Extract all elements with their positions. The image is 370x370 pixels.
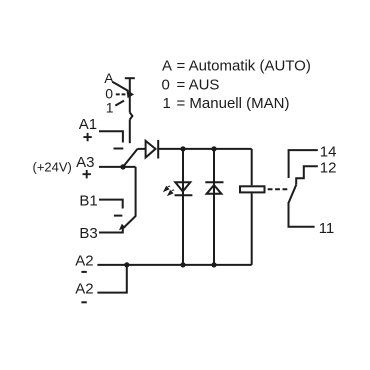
selector tick for position 1 [115,101,124,106]
selector lever to position A [113,82,129,91]
node top bus / diode branch [211,146,216,151]
suppressor diode triangle [207,185,222,194]
plus sign under A3 [83,170,91,178]
wire B3 terminal [99,229,123,233]
svg-text:0: 0 [162,76,170,93]
wire A2 lower terminal [97,265,126,293]
terminal label A2 lower [75,281,93,298]
terminal label B1 [79,193,97,210]
LED light arrow lower [167,189,175,196]
svg-text:= AUS: = AUS [177,76,220,93]
selector position label 1 [106,100,114,116]
wire relay coil branch upper [251,149,253,185]
relay contact wire terminal 12 [296,166,318,185]
wire suppressor diode branch vertical [213,149,215,265]
pin label 12 [320,160,337,177]
plus sign under A1 [83,133,91,141]
wire LED branch vertical [182,149,184,265]
svg-text:A: A [104,70,114,86]
wire lever to diode anode [138,148,146,150]
wire B1 terminal [99,200,123,209]
svg-text:1: 1 [163,95,171,112]
selector shaft lower [129,120,131,144]
selector switch S (positions A/0/1) label A [104,70,114,86]
node bottom bus / diode branch [211,262,216,267]
relay contact wire terminal 14 [289,150,318,178]
svg-text:(+24V): (+24V) [33,159,72,174]
LED triangle [175,182,190,191]
svg-text:11: 11 [319,220,335,237]
svg-text:A3: A3 [76,154,94,171]
legend text block [162,58,311,112]
minus sign under A2 lower [81,301,86,303]
svg-text:A1: A1 [79,116,97,133]
label (+24V) [33,159,72,174]
wire A1 terminal [99,131,123,142]
contact lever B3 [123,216,136,229]
contact lever B3 arrowhead [119,224,126,231]
relay contact wire terminal 11 [289,202,315,227]
selector shaft chevron kink [130,113,133,120]
svg-text:A2: A2 [75,281,93,298]
terminal label B3 [79,225,97,242]
svg-text:= Manuell (MAN): = Manuell (MAN) [177,95,290,112]
wire A3 branch down to B contact [135,167,137,216]
fixed contact bar (A1 side) [114,148,124,150]
terminal label A3 [76,154,94,171]
terminal label A2 upper [75,253,93,270]
selector lever arrowhead [126,90,134,98]
wire top bus [159,148,252,150]
fixed contact bar (B1 side) [114,215,122,217]
terminal label A1 [79,116,97,133]
pin label 14 [320,143,337,160]
node junction A3 [120,164,125,169]
minus sign under A2 upper [81,271,86,273]
node bottom bus / LED branch [180,262,185,267]
svg-text:A: A [162,58,172,75]
svg-text:B3: B3 [79,225,97,242]
relay contact lever [289,185,297,203]
changeover contact lever (A3 common) [123,149,138,167]
svg-text:B1: B1 [79,193,97,210]
selector shaft upper [129,78,131,112]
svg-text:= Automatik (AUTO): = Automatik (AUTO) [177,58,311,75]
suppressor diode cathode bar [205,181,223,183]
diode D1 cathode bar [157,140,159,159]
relay coil K1 [240,186,265,192]
svg-text:12: 12 [320,160,337,177]
wire A3 terminal [99,166,136,168]
selector dashed link to position 0 [116,93,126,95]
wire relay coil branch lower [251,193,253,265]
LED cathode bar [175,194,193,196]
pin label 11 [319,220,335,237]
node top bus / LED branch [180,146,185,151]
node bottom bus / A2 join [124,262,129,267]
diode D1 triangle [146,141,156,158]
svg-text:1: 1 [106,100,114,116]
LED light arrow upper [163,185,171,192]
selector position label 0 [105,85,113,101]
svg-text:A2: A2 [75,253,93,270]
mechanical link dashed [268,188,288,190]
wire A2 bottom bus [97,264,251,266]
selector T-bar head [125,77,135,79]
svg-text:14: 14 [320,143,337,160]
